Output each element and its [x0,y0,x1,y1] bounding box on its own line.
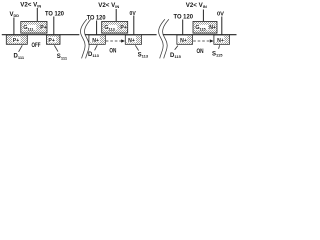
current arrow (T2 on) [106,39,125,42]
wire 0V to S113 [133,16,135,36]
wire 0V to S115 [221,17,223,36]
svg-text:TO 120: TO 120 [174,13,194,20]
svg-text:P+: P+ [13,38,19,44]
diffusion D111 P+ box [6,35,27,44]
svg-text:OFF: OFF [32,43,41,49]
svg-text:S111: S111 [57,54,68,60]
substrate surface segment B [85,34,157,36]
gate G113 box [102,21,128,33]
svg-text:N+: N+ [180,38,187,44]
diffusion S115 N+ box [214,35,230,44]
leader S111 [54,45,58,51]
wire gate G115 [202,10,204,22]
wire TO 120 to D115 [182,20,184,36]
wire VDD to D111 [13,18,15,36]
leader S113 [135,45,138,50]
leader D111 [19,45,23,52]
wire gate G113 [115,9,117,21]
svg-text:S113: S113 [138,52,149,58]
diffusion D113 N+ box [89,35,105,44]
svg-text:P+: P+ [40,25,47,31]
svg-text:D115: D115 [170,53,182,59]
svg-text:0V: 0V [130,11,136,17]
svg-text:S115: S115 [212,51,223,57]
current arrow (T3 on) [193,39,213,42]
svg-text:P+: P+ [120,25,127,31]
leader S115 [219,45,220,49]
break mark 2 [159,19,169,58]
svg-text:ON: ON [197,49,204,55]
svg-text:TO 120: TO 120 [87,15,106,22]
wire TO 120 to D113 [96,21,98,36]
gate G115 box [193,21,217,33]
svg-text:D113: D113 [88,52,100,58]
diffusion S113 N+ box [125,35,141,44]
svg-text:N+: N+ [217,38,224,44]
svg-text:0V: 0V [217,11,224,17]
svg-text:N+: N+ [209,25,216,31]
svg-text:N+: N+ [92,38,99,44]
diffusion S111 P+ box [47,35,61,44]
substrate surface segment C [163,34,237,36]
wire TO 120 to S111 [53,17,55,36]
svg-text:D111: D111 [14,54,25,60]
svg-text:P+: P+ [48,38,55,44]
svg-text:TO 120: TO 120 [45,10,65,17]
leader D115 [175,46,178,50]
gate doping label P+ [40,25,47,31]
gate doping label P+ [120,25,127,31]
break mark 1 [80,19,90,58]
diffusion D115 N+ box [177,35,193,44]
svg-text:N+: N+ [128,38,135,44]
gate doping label N+ [209,25,216,31]
substrate surface segment A [2,34,80,36]
gate G111 box [21,21,47,33]
wire gate G111 [36,8,38,21]
svg-text:ON: ON [109,49,116,55]
leader D113 [95,45,98,50]
